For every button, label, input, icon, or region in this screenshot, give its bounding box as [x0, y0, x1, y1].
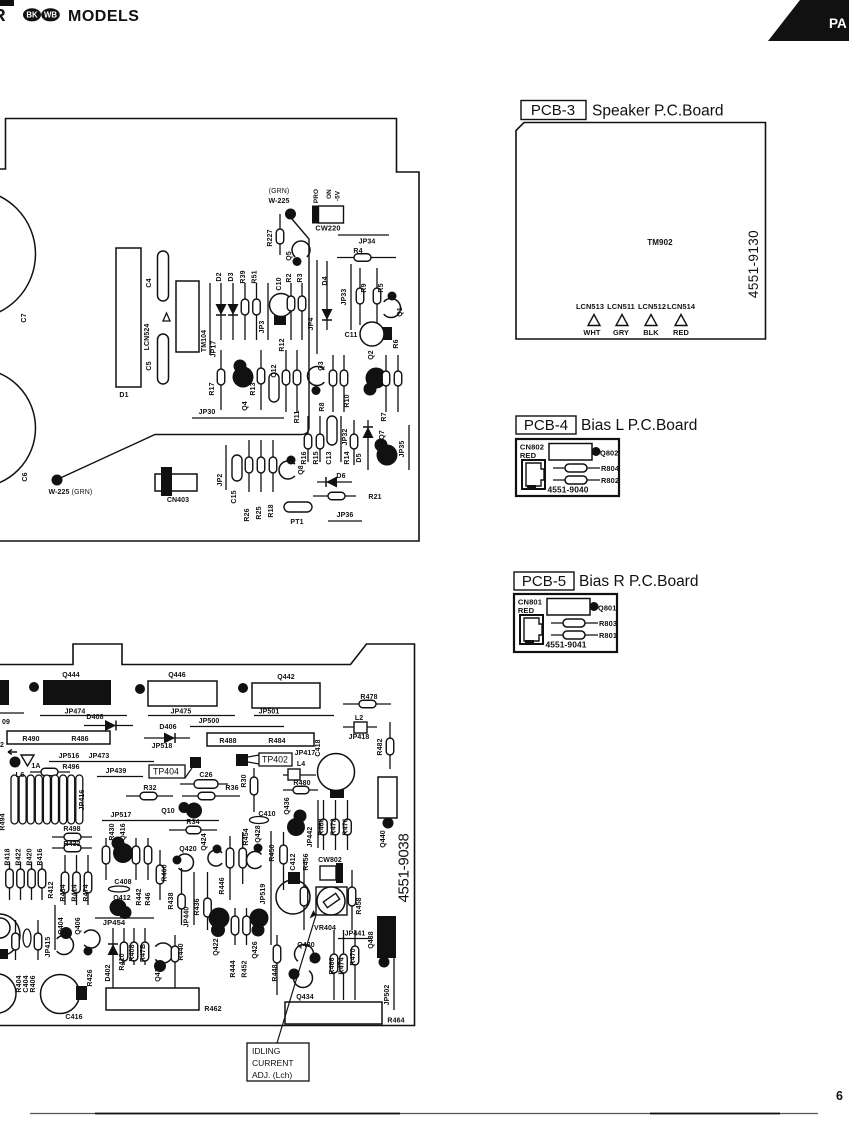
diode D402	[105, 928, 119, 990]
svg-text:JP32: JP32	[342, 429, 349, 446]
svg-text:W-225: W-225	[49, 489, 70, 496]
svg-text:R414: R414	[72, 884, 79, 901]
resistor R15	[313, 416, 324, 465]
coil loop	[60, 775, 67, 824]
svg-text:R470: R470	[350, 948, 357, 965]
svg-text:R474: R474	[83, 884, 90, 901]
jumper JP500	[190, 718, 284, 727]
capacitor lens	[23, 929, 31, 947]
svg-text:R21: R21	[368, 494, 381, 501]
capacitor C7	[0, 190, 36, 323]
resistor R438	[168, 868, 185, 925]
corner banner PA	[768, 0, 849, 41]
jumper JP439	[97, 768, 143, 777]
resistor R472	[331, 800, 340, 850]
svg-text:L4: L4	[297, 761, 305, 768]
jumper JP501	[254, 709, 334, 716]
svg-text:TM902: TM902	[647, 238, 673, 247]
resistor	[6, 862, 14, 900]
svg-text:R408: R408	[129, 944, 136, 961]
svg-text:WB: WB	[44, 11, 57, 20]
svg-text:R30: R30	[241, 774, 248, 787]
svg-text:R482: R482	[377, 738, 384, 755]
svg-text:R18: R18	[268, 504, 275, 517]
svg-text:JP33: JP33	[341, 289, 348, 306]
jumper JP30	[192, 409, 284, 418]
inductor L4	[283, 761, 316, 780]
svg-text:JP415: JP415	[45, 937, 52, 958]
transistor Q434	[289, 969, 314, 1002]
coil loop	[11, 775, 18, 824]
jumper JP440	[184, 872, 195, 927]
svg-text:R410: R410	[119, 953, 126, 970]
svg-text:R802: R802	[601, 476, 619, 485]
svg-text:R13: R13	[250, 382, 257, 395]
svg-text:Q424: Q424	[201, 833, 208, 851]
svg-text:RED: RED	[518, 606, 535, 615]
transistor Q7	[375, 439, 398, 466]
capacitor C410	[250, 811, 276, 824]
transistor Q416	[112, 837, 134, 864]
bottom PCB board outline	[0, 644, 415, 1026]
svg-text:JP30: JP30	[199, 409, 216, 416]
svg-text:R488: R488	[219, 738, 236, 745]
connector LCN512	[638, 302, 666, 337]
svg-text:D5: D5	[356, 453, 363, 462]
svg-text:1A: 1A	[31, 763, 40, 770]
svg-text:Q436: Q436	[284, 797, 291, 815]
svg-text:R51: R51	[252, 270, 259, 283]
connector CN403	[155, 467, 197, 504]
svg-text:JP500: JP500	[199, 718, 220, 725]
svg-text:Q5: Q5	[286, 251, 293, 261]
big cap left mid	[0, 914, 20, 959]
transistor Q5	[286, 241, 310, 266]
diode D408	[84, 714, 133, 731]
svg-text:JP474: JP474	[65, 709, 86, 716]
transistor left arc	[0, 918, 10, 938]
big cap bottom left	[0, 974, 16, 1013]
svg-text:R438: R438	[168, 892, 175, 909]
transistor Q10	[161, 802, 202, 819]
svg-text:R36: R36	[225, 785, 238, 792]
svg-text:R476: R476	[343, 818, 350, 835]
capacitor C408	[109, 879, 132, 892]
svg-text:Q3: Q3	[318, 361, 325, 371]
svg-text:JP473: JP473	[89, 753, 110, 760]
svg-text:Q426: Q426	[252, 941, 259, 959]
svg-text:PRO: PRO	[313, 189, 320, 203]
svg-text:R446: R446	[219, 877, 226, 894]
svg-text:R801: R801	[599, 631, 617, 640]
coil loop	[19, 775, 26, 824]
svg-text:JP34: JP34	[359, 239, 376, 246]
capacitor C12	[269, 364, 279, 402]
diode D2	[216, 272, 227, 340]
svg-text:R16: R16	[301, 451, 308, 464]
pad dot 1	[29, 682, 39, 692]
transistor Q422	[209, 908, 230, 956]
svg-text:R2: R2	[286, 273, 293, 282]
svg-text:JP518: JP518	[152, 743, 173, 750]
svg-text:D6: D6	[336, 473, 345, 480]
svg-text:Q420: Q420	[179, 846, 197, 853]
resistor R466	[329, 930, 338, 1000]
resistor R16	[301, 416, 312, 465]
coil loop	[68, 775, 75, 824]
transistor Q3	[308, 361, 325, 395]
coil loop	[43, 775, 50, 824]
resistor R803	[551, 619, 617, 628]
svg-text:R10: R10	[344, 394, 351, 407]
diode D3	[228, 272, 239, 340]
svg-text:Q2: Q2	[368, 350, 375, 360]
transistor Q440	[378, 777, 397, 848]
svg-text:R26: R26	[244, 508, 251, 521]
diode D5	[356, 420, 374, 470]
svg-text:TP404: TP404	[153, 767, 179, 777]
svg-text:IDLING: IDLING	[252, 1046, 280, 1056]
badge BK	[23, 8, 41, 21]
resistor R474	[83, 855, 92, 905]
resistor R478	[343, 694, 391, 708]
resistor R3	[297, 273, 306, 340]
resistor R458	[348, 870, 363, 930]
coil loop	[76, 775, 83, 824]
transistor Q444	[43, 672, 111, 705]
svg-text:R4: R4	[353, 248, 362, 255]
resistor	[28, 862, 36, 900]
resistor R39	[240, 270, 249, 340]
svg-text:R486: R486	[71, 736, 88, 743]
svg-text:LCN512: LCN512	[638, 302, 666, 311]
resistor	[12, 920, 20, 960]
PCB-3 title	[521, 101, 724, 120]
resistor R462	[106, 988, 222, 1013]
svg-text:D3: D3	[228, 272, 235, 281]
badge WB	[41, 8, 60, 21]
svg-text:R464: R464	[387, 1018, 404, 1025]
capacitor C416	[41, 975, 88, 1022]
resistor R227	[267, 214, 284, 255]
resistor R452	[242, 908, 251, 978]
svg-text:ADJ. (Lch): ADJ. (Lch)	[252, 1070, 292, 1080]
resistor R468	[319, 800, 328, 850]
transistor Q424	[201, 833, 222, 866]
relay box Q801	[547, 599, 616, 616]
transistor Q436	[287, 810, 307, 837]
svg-text:R426: R426	[87, 969, 94, 986]
resistor R13	[250, 350, 265, 410]
svg-text:R496: R496	[62, 764, 79, 771]
jumper JP473	[49, 753, 154, 762]
triangle 1A	[21, 755, 41, 770]
resistor R432	[52, 841, 92, 852]
svg-text:CN403: CN403	[167, 497, 189, 504]
transistor Q418 outline	[276, 880, 310, 914]
svg-text:6: 6	[836, 1089, 843, 1103]
svg-text:JP442: JP442	[307, 827, 314, 848]
svg-text:C416: C416	[65, 1014, 82, 1021]
svg-text:C6: C6	[22, 472, 29, 481]
svg-text:LCN524: LCN524	[144, 324, 151, 351]
svg-text:2: 2	[0, 742, 4, 749]
page corner mark	[0, 0, 14, 6]
resistor R4	[337, 248, 396, 261]
jumper JP32	[341, 416, 349, 462]
resistor R444	[230, 908, 239, 978]
resistor R47B	[140, 928, 149, 965]
resistor R14	[344, 420, 358, 465]
transistor Q426b	[84, 930, 100, 987]
svg-text:R462: R462	[204, 1006, 221, 1013]
resistor R410	[119, 928, 128, 971]
svg-text:R442: R442	[136, 888, 143, 905]
resistor	[132, 838, 140, 880]
transistor Q438	[368, 916, 396, 968]
capacitor C15	[231, 455, 242, 504]
connector CN802 labels	[520, 443, 544, 461]
svg-text:R406: R406	[30, 975, 37, 992]
svg-text:C11: C11	[345, 332, 358, 339]
svg-text:BLK: BLK	[643, 328, 659, 337]
svg-text:R416: R416	[37, 848, 44, 865]
svg-text:R32: R32	[143, 785, 156, 792]
inductor L2	[343, 715, 377, 733]
svg-text:C5: C5	[146, 361, 153, 370]
resistor R414	[72, 855, 81, 905]
svg-text:R472: R472	[331, 818, 338, 835]
svg-text:Q442: Q442	[277, 674, 295, 681]
PCB-3 board outline	[516, 123, 766, 340]
resistor R51	[252, 270, 261, 340]
svg-text:R448: R448	[272, 964, 279, 981]
IC TM104	[176, 281, 208, 352]
resistor R434	[60, 855, 69, 905]
svg-text:D406: D406	[159, 724, 176, 731]
svg-text:R25: R25	[256, 506, 263, 519]
jumper JP475	[148, 709, 235, 716]
transistor Q2	[364, 368, 387, 396]
svg-text:R12: R12	[279, 338, 286, 351]
jumper JP36	[328, 512, 362, 521]
svg-text:LCN511: LCN511	[607, 302, 635, 311]
connector CW220	[312, 189, 344, 233]
connector CN801 labels	[518, 598, 543, 616]
jumper JP442	[307, 800, 318, 848]
svg-text:JP3: JP3	[259, 321, 266, 334]
footer rule dark segments	[95, 1113, 780, 1115]
svg-text:R227: R227	[267, 229, 274, 246]
jumper JP17	[210, 283, 218, 357]
svg-text:C10: C10	[276, 277, 283, 290]
svg-text:R480: R480	[293, 780, 310, 787]
PCB-4 board outline	[516, 439, 619, 496]
svg-text:C412: C412	[290, 853, 297, 870]
relay box Q802	[549, 444, 618, 461]
resistor R498	[52, 826, 92, 841]
jumper JP34	[338, 235, 389, 246]
connector CN801 body	[520, 615, 543, 644]
capacitor C412	[288, 872, 300, 884]
resistor R9	[356, 268, 368, 325]
resistor R450	[269, 832, 287, 890]
svg-text:R46: R46	[145, 892, 152, 905]
resistor R5	[373, 268, 385, 325]
transistor Q1	[384, 292, 404, 318]
resistor R10a	[382, 355, 390, 412]
diode block D1	[116, 248, 141, 399]
svg-text:JP454: JP454	[103, 918, 126, 927]
resistor R476	[343, 800, 352, 850]
PCB-5 board outline	[514, 594, 617, 652]
svg-text:4551-9040: 4551-9040	[548, 485, 589, 495]
svg-text:R14: R14	[344, 451, 351, 464]
svg-text:Q802: Q802	[600, 449, 618, 458]
resistor R456a	[300, 860, 308, 930]
jumper JP517	[102, 812, 219, 821]
svg-text:Q422: Q422	[213, 938, 220, 956]
resistor R802	[553, 476, 619, 485]
svg-text:RED: RED	[520, 451, 537, 460]
svg-text:Speaker P.C.Board: Speaker P.C.Board	[592, 103, 724, 120]
resistor R804	[553, 464, 620, 473]
svg-text:Q446: Q446	[168, 672, 186, 679]
svg-text:(GRN): (GRN)	[269, 188, 290, 195]
connector LCN513	[576, 302, 604, 337]
resistor R470	[350, 930, 359, 1000]
jumper JP441	[338, 931, 372, 939]
pad W-225 (GRN) top	[269, 188, 296, 220]
svg-text:09: 09	[2, 719, 10, 726]
transistor Q4	[233, 360, 254, 411]
svg-text:L6: L6	[15, 770, 24, 779]
connector LCN514	[667, 302, 696, 337]
svg-text:Q414: Q414	[155, 964, 162, 982]
resistor R12	[279, 338, 290, 412]
svg-text:VR404: VR404	[314, 925, 336, 932]
resistor R2	[286, 273, 295, 340]
svg-text:JP36: JP36	[337, 512, 354, 519]
svg-text:JP440: JP440	[184, 907, 191, 928]
resistor R460	[156, 850, 168, 900]
capacitor C11	[345, 322, 392, 346]
footer rule	[30, 1113, 818, 1115]
transistor Q430	[295, 942, 321, 964]
jumper JP502	[384, 958, 394, 1010]
pad dot 1A	[10, 757, 21, 768]
svg-text:D408: D408	[86, 714, 103, 721]
resistor R408	[129, 928, 138, 965]
resistor R26	[244, 440, 253, 522]
capacitor C5	[146, 334, 169, 384]
svg-text:Q801: Q801	[598, 604, 616, 613]
resistor R8	[319, 355, 337, 412]
svg-text:R17: R17	[209, 382, 216, 395]
svg-text:Q4: Q4	[242, 401, 249, 411]
svg-text:R404: R404	[16, 975, 23, 992]
jumper JP4	[308, 260, 317, 354]
svg-text:JP519: JP519	[260, 884, 267, 905]
svg-text:Bias R P.C.Board: Bias R P.C.Board	[579, 573, 698, 590]
coil loop	[52, 775, 59, 824]
svg-text:Q440: Q440	[380, 830, 387, 848]
svg-text:JP501: JP501	[259, 709, 280, 716]
svg-text:R: R	[0, 5, 6, 25]
resistor R18	[268, 440, 277, 518]
svg-text:LCN514: LCN514	[667, 302, 696, 311]
svg-text:C7: C7	[21, 313, 28, 322]
resistor R436	[194, 872, 211, 930]
jumper JP415	[45, 905, 55, 957]
svg-text:Q444: Q444	[62, 672, 80, 679]
transistor Q420	[173, 846, 197, 871]
svg-text:PT1: PT1	[290, 519, 303, 526]
svg-text:C26: C26	[199, 772, 212, 779]
svg-text:R422: R422	[16, 848, 23, 865]
svg-text:R490: R490	[22, 736, 39, 743]
svg-text:Q412: Q412	[113, 895, 131, 902]
resistor	[34, 920, 42, 960]
resistor R10	[340, 355, 351, 412]
resistor	[144, 838, 152, 880]
svg-text:C410: C410	[258, 811, 275, 818]
resistor R454a	[239, 832, 247, 884]
connector LCN511	[607, 302, 635, 337]
svg-text:R5: R5	[378, 283, 385, 292]
svg-text:JP4: JP4	[308, 318, 315, 331]
svg-text:JP2: JP2	[217, 474, 224, 487]
pad dot 2	[135, 684, 145, 694]
svg-text:Q7: Q7	[379, 430, 386, 440]
resistor R21	[313, 492, 382, 501]
resistor	[38, 862, 46, 900]
svg-text:WHT: WHT	[583, 328, 601, 337]
svg-text:LCN513: LCN513	[576, 302, 604, 311]
svg-text:D402: D402	[105, 964, 112, 981]
coil loop	[35, 775, 42, 824]
svg-text:R436: R436	[194, 898, 201, 915]
top PCB board outline	[0, 119, 419, 542]
svg-text:JP418: JP418	[349, 734, 370, 741]
pad dot 3	[238, 683, 248, 693]
resistor R496	[30, 764, 80, 776]
svg-text:R412: R412	[48, 881, 55, 898]
svg-text:JP516: JP516	[59, 753, 80, 760]
svg-text:JP517: JP517	[111, 812, 132, 819]
svg-text:CW802: CW802	[318, 857, 342, 864]
svg-text:GRY: GRY	[613, 328, 629, 337]
callout IDLING CURRENT ADJ	[247, 1043, 309, 1081]
svg-text:C15: C15	[231, 490, 238, 503]
PCB-4 title	[516, 416, 697, 434]
resistor R446	[219, 836, 234, 900]
svg-text:JP17: JP17	[211, 341, 218, 358]
transistor Q426	[250, 909, 269, 959]
svg-text:Q438: Q438	[368, 931, 375, 949]
resistor R464	[285, 1002, 405, 1025]
svg-text:PCB-3: PCB-3	[531, 102, 575, 119]
svg-text:PCB-4: PCB-4	[524, 417, 568, 434]
svg-text:Q434: Q434	[296, 994, 314, 1001]
part CW802	[318, 857, 343, 883]
svg-text:D2: D2	[216, 272, 223, 281]
resistor R30	[241, 768, 258, 812]
diode D6	[317, 473, 352, 488]
svg-text:R454: R454	[243, 828, 250, 845]
svg-text:Q428: Q428	[255, 825, 262, 843]
svg-text:R432: R432	[63, 841, 80, 848]
